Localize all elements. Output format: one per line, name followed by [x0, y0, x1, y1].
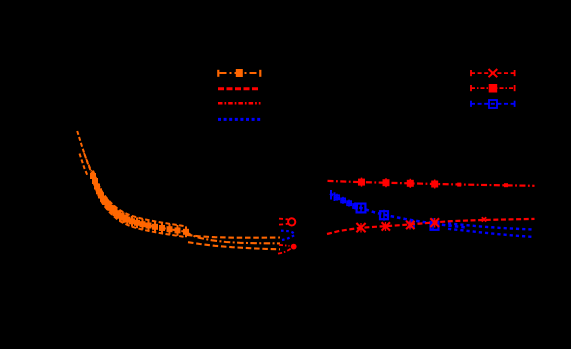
entry 2: red dash-dot with filled square marker [471, 84, 515, 93]
entry 1: orange errorbar sample [218, 69, 260, 77]
orange square markers [90, 173, 189, 235]
orange error-cap bottom row [93, 181, 186, 237]
top red dash-dot curve [328, 181, 535, 186]
red dashed band tail with open circle end [279, 218, 295, 225]
orange head strand right (cap) [84, 153, 92, 172]
entry 3: blue dashed with open square marker [471, 100, 515, 108]
bottom red dashed curve [327, 219, 535, 234]
orange error-cap bottom row (tail) [188, 242, 280, 249]
orange error-cap top row [93, 171, 186, 227]
orange error bar verticals [93, 171, 186, 238]
red dash-dot band tail with filled circle end [278, 244, 297, 254]
orange head strand left (cap) [80, 154, 88, 176]
entry 1: red dashed with X marker [471, 69, 515, 77]
entry 3: red dash-dot [218, 102, 261, 105]
entry 2: red dashed [218, 87, 261, 90]
entry 4: blue dotted [218, 118, 261, 121]
orange error-cap top row (tail) [187, 235, 280, 238]
blue dotted band tail [281, 231, 295, 240]
blue dashed curve [330, 194, 465, 228]
orange main data curve [92, 174, 280, 244]
orange head strand upper [77, 131, 92, 174]
